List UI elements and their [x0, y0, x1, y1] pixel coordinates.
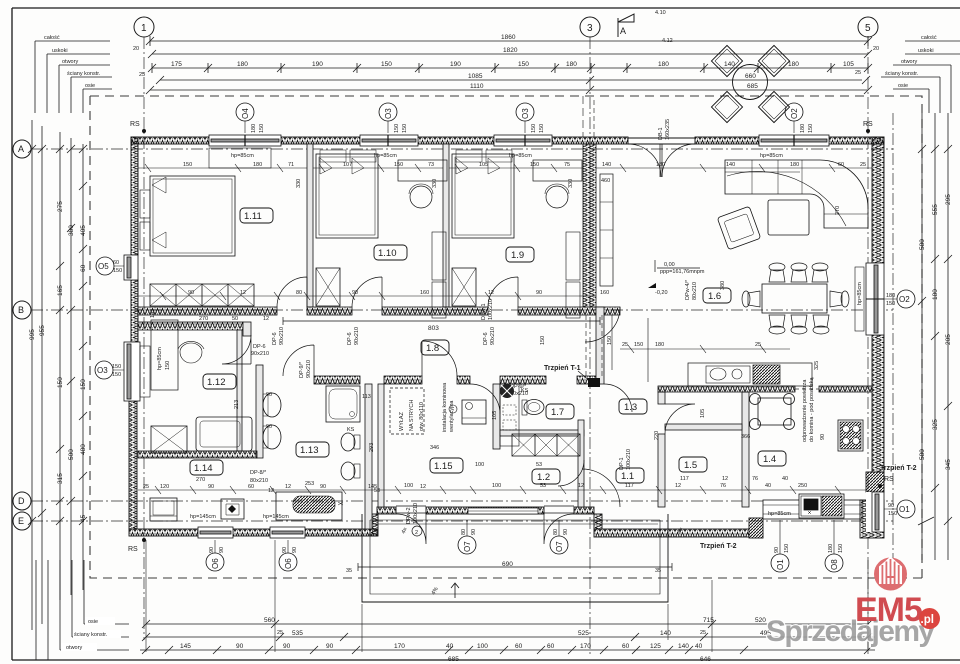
wall 1.9/living: [583, 144, 596, 307]
svg-text:25: 25: [855, 70, 861, 76]
svg-text:1.13: 1.13: [300, 445, 319, 456]
svg-text:12: 12: [488, 290, 494, 296]
svg-text:150: 150: [112, 364, 121, 370]
svg-text:O7: O7: [555, 541, 564, 552]
kitchen top wall: [658, 386, 795, 392]
corridor bottom wall / bath top: [314, 376, 360, 384]
svg-text:45: 45: [80, 514, 87, 522]
svg-text:315: 315: [57, 473, 64, 484]
svg-text:odprowadzenie powietrza: odprowadzenie powietrza: [802, 379, 808, 442]
svg-text:175: 175: [171, 61, 182, 68]
left window O3w (1.12): [124, 342, 150, 401]
grid bubble D: [13, 492, 31, 510]
svg-text:71: 71: [288, 162, 294, 168]
bottom window O6a: [198, 527, 233, 538]
svg-text:DPw-1: DPw-1: [481, 303, 487, 320]
svg-text:100x210: 100x210: [488, 299, 494, 320]
top window O4: [209, 135, 281, 146]
svg-text:ściany konstr.: ściany konstr.: [67, 71, 101, 77]
svg-text:90: 90: [282, 547, 288, 553]
803 dim under bedroom wall: [283, 317, 600, 325]
svg-text:O2: O2: [899, 295, 910, 304]
svg-text:76: 76: [752, 476, 758, 482]
svg-text:150: 150: [886, 301, 895, 307]
svg-text:346: 346: [430, 445, 439, 451]
svg-text:180: 180: [800, 124, 806, 133]
svg-text:instalacja kominowa: instalacja kominowa: [442, 382, 448, 432]
wall 1.11/1.10: [307, 144, 313, 307]
top wall hatched segments: [131, 137, 884, 144]
svg-text:O4: O4: [241, 108, 250, 119]
svg-text:330: 330: [432, 179, 438, 188]
desk 1.10: [398, 160, 447, 181]
svg-text:12: 12: [285, 484, 291, 490]
svg-text:hp=85cm: hp=85cm: [231, 153, 254, 159]
dining table: [762, 284, 827, 313]
svg-text:150: 150: [259, 124, 265, 133]
svg-text:150: 150: [540, 336, 546, 345]
svg-text:105: 105: [492, 411, 498, 420]
svg-text:O5: O5: [98, 262, 109, 271]
svg-text:380: 380: [720, 281, 726, 290]
door 1.1 porch: [582, 469, 620, 507]
svg-text:150: 150: [402, 124, 408, 133]
svg-text:270: 270: [196, 477, 205, 483]
svg-text:53: 53: [540, 483, 546, 489]
svg-text:DP-1: DP-1: [619, 457, 625, 470]
svg-text:90: 90: [536, 290, 542, 296]
extension verticals to bottom dims: [146, 540, 868, 652]
top dim line osie 1110 / 685: [146, 86, 872, 94]
svg-text:1.1: 1.1: [621, 471, 634, 482]
svg-text:90: 90: [236, 643, 244, 650]
bottom window O6b: [270, 527, 305, 538]
svg-text:140: 140: [724, 61, 735, 68]
svg-text:5: 5: [865, 23, 871, 34]
svg-text:otwory: otwory: [901, 59, 917, 65]
1.12 top wall: [138, 322, 243, 330]
svg-text:1.6: 1.6: [708, 291, 721, 302]
top window O3a: [360, 135, 418, 146]
svg-text:40: 40: [765, 483, 771, 489]
svg-text:555: 555: [932, 204, 939, 215]
svg-text:Trzpień T-2: Trzpień T-2: [700, 543, 737, 550]
bottom-left stepped labels: [36, 560, 129, 660]
svg-text:O2: O2: [790, 108, 799, 119]
svg-text:190: 190: [312, 61, 323, 68]
top dim line otwory segments: [148, 63, 872, 73]
wardrobe 1.10: [316, 268, 340, 306]
misc small dims: [150, 282, 863, 487]
svg-text:180: 180: [886, 293, 895, 299]
svg-text:105: 105: [843, 61, 854, 68]
svg-text:160x235: 160x235: [665, 119, 671, 140]
svg-text:90: 90: [292, 547, 298, 553]
svg-text:330: 330: [568, 179, 574, 188]
bedroom bottom wall segments: [138, 307, 277, 315]
svg-text:1860: 1860: [501, 34, 516, 41]
grid bubble 1: [134, 17, 154, 37]
svg-text:WYŁAZ: WYŁAZ: [399, 411, 405, 431]
chimney wall near living: [596, 307, 604, 384]
svg-text:do komina - pod posadzką: do komina - pod posadzką: [809, 377, 815, 442]
top-left stepped labels: [35, 41, 112, 113]
bath right wall: [365, 384, 372, 529]
svg-text:1110: 1110: [470, 83, 484, 90]
svg-text:12: 12: [268, 488, 274, 494]
svg-text:646: 646: [700, 656, 711, 663]
top entry door DB-1 opening: [628, 138, 695, 177]
svg-text:1.4: 1.4: [763, 454, 776, 465]
svg-text:107: 107: [343, 162, 352, 168]
top dim line calosc 1860: [146, 36, 872, 46]
svg-text:E: E: [18, 516, 24, 526]
svg-text:180: 180: [237, 61, 248, 68]
svg-text:12: 12: [420, 484, 426, 490]
svg-text:EM5: EM5: [855, 591, 922, 629]
svg-text:60: 60: [622, 643, 630, 650]
door 1.11: [277, 277, 307, 307]
svg-text:150: 150: [888, 511, 897, 517]
svg-text:35: 35: [655, 568, 661, 574]
svg-text:80: 80: [553, 529, 559, 535]
svg-text:150: 150: [808, 124, 814, 133]
svg-text:90x210: 90x210: [306, 360, 312, 378]
svg-text:1085: 1085: [468, 73, 483, 80]
svg-text:1.8: 1.8: [426, 343, 439, 354]
svg-text:3: 3: [587, 23, 593, 34]
small table with chairs: [758, 398, 791, 425]
1.15 right / 1.7 left walls: [493, 384, 500, 449]
svg-text:180: 180: [253, 162, 262, 168]
svg-text:90x210: 90x210: [251, 351, 269, 357]
svg-text:20: 20: [133, 46, 139, 52]
svg-text:90: 90: [219, 547, 225, 553]
door 1.1 entry from porch: [585, 307, 620, 342]
axis horizontal dash-dot lines A,B,D,E: [31, 149, 893, 521]
svg-text:DP-6: DP-6: [483, 332, 489, 345]
top window O2: [759, 135, 829, 146]
svg-text:140: 140: [726, 162, 735, 168]
svg-text:90: 90: [283, 643, 291, 650]
svg-text:117: 117: [680, 476, 689, 482]
svg-text:O1: O1: [899, 505, 910, 514]
svg-text:76: 76: [720, 483, 726, 489]
svg-text:90: 90: [471, 529, 477, 535]
svg-text:180: 180: [655, 342, 664, 348]
svg-text:O3: O3: [97, 366, 108, 375]
svg-text:140: 140: [678, 643, 689, 650]
svg-text:150: 150: [531, 124, 537, 133]
bottom wall under 1.5 lower level: [594, 514, 749, 537]
svg-text:.pl: .pl: [921, 614, 934, 626]
svg-text:125: 125: [650, 643, 661, 650]
svg-text:A: A: [18, 144, 24, 154]
svg-text:A: A: [620, 26, 626, 36]
svg-text:75: 75: [564, 162, 570, 168]
svg-text:0,00: 0,00: [664, 262, 675, 268]
svg-text:hp=85cm: hp=85cm: [760, 153, 783, 159]
svg-text:NA STRYCH: NA STRYCH: [409, 400, 415, 431]
svg-text:12: 12: [578, 483, 584, 489]
left vertical dim chains: [28, 120, 87, 630]
svg-text:180: 180: [788, 61, 799, 68]
svg-text:105: 105: [700, 409, 706, 418]
1.12 right wall: [237, 330, 242, 451]
svg-text:366: 366: [741, 434, 750, 440]
svg-text:40: 40: [782, 476, 788, 482]
svg-text:całość: całość: [921, 35, 937, 41]
svg-text:1820: 1820: [503, 47, 518, 54]
right window O1 low: [866, 492, 884, 532]
porch door O7b opening: [544, 506, 574, 544]
svg-text:150: 150: [838, 544, 844, 553]
svg-text:150: 150: [165, 361, 171, 370]
svg-text:100: 100: [477, 643, 488, 650]
shower: [326, 386, 360, 422]
svg-text:140: 140: [660, 630, 671, 637]
svg-text:40: 40: [446, 643, 454, 650]
svg-text:90: 90: [326, 643, 334, 650]
right window O2: [855, 263, 884, 335]
bottom-left wall hatched: [129, 529, 377, 536]
svg-text:535: 535: [292, 630, 303, 637]
svg-text:500: 500: [68, 449, 75, 460]
svg-text:80: 80: [296, 290, 302, 296]
svg-text:1.3: 1.3: [624, 402, 637, 413]
svg-text:50: 50: [232, 316, 238, 322]
svg-text:180: 180: [932, 289, 939, 300]
svg-text:RS: RS: [884, 476, 894, 483]
coffee table: [768, 200, 809, 235]
svg-text:405: 405: [80, 225, 87, 236]
svg-text:100: 100: [492, 483, 501, 489]
svg-text:180: 180: [658, 61, 669, 68]
svg-text:60: 60: [113, 260, 119, 266]
svg-text:145: 145: [180, 643, 191, 650]
interior dim rows in bedrooms y=168: [138, 164, 872, 172]
svg-text:293: 293: [369, 443, 375, 452]
dim row under bedroom doors y=296: [138, 292, 596, 300]
svg-text:80: 80: [461, 529, 467, 535]
svg-text:150: 150: [518, 61, 529, 68]
svg-text:uskoki: uskoki: [52, 48, 68, 54]
svg-text:140: 140: [602, 162, 611, 168]
svg-text:90: 90: [774, 547, 780, 553]
svg-text:275: 275: [57, 201, 64, 212]
svg-text:Trzpień T-1: Trzpień T-1: [544, 365, 581, 372]
svg-text:150: 150: [607, 336, 613, 345]
svg-text:60: 60: [248, 484, 254, 490]
svg-text:150: 150: [80, 379, 87, 390]
tv cabinet: [600, 174, 613, 286]
svg-text:150: 150: [530, 162, 539, 168]
svg-text:otwory: otwory: [66, 645, 82, 651]
dim row at y=490 right block: [455, 486, 868, 494]
svg-text:-0,20: -0,20: [655, 290, 668, 296]
sink: [706, 366, 750, 383]
door bath 1.13: [283, 345, 314, 376]
svg-text:53: 53: [374, 488, 380, 494]
svg-text:DPw-2: DPw-2: [406, 507, 412, 524]
left window O5: [124, 255, 138, 280]
stove hatched: [753, 365, 780, 384]
svg-text:90: 90: [320, 484, 326, 490]
svg-text:150: 150: [394, 124, 400, 133]
svg-text:O1: O1: [776, 559, 785, 570]
svg-text:35: 35: [346, 568, 352, 574]
svg-text:685: 685: [747, 83, 758, 90]
svg-text:345: 345: [945, 459, 952, 470]
svg-text:1.7: 1.7: [551, 407, 564, 418]
1.15 left wall: [378, 384, 384, 507]
svg-text:hp=85cm: hp=85cm: [157, 347, 163, 370]
svg-text:325: 325: [814, 361, 820, 370]
porch door O7a opening: [396, 506, 426, 544]
door 1.15: [422, 341, 457, 376]
svg-text:90x210: 90x210: [354, 327, 360, 345]
svg-text:165: 165: [57, 285, 64, 296]
svg-text:otwory: otwory: [62, 59, 78, 65]
svg-text:60: 60: [515, 643, 523, 650]
svg-text:520: 520: [755, 617, 766, 624]
svg-text:100: 100: [475, 462, 484, 468]
svg-text:Trzpień T-2: Trzpień T-2: [880, 465, 917, 472]
bathtub: [276, 492, 342, 520]
svg-text:53: 53: [536, 462, 542, 468]
svg-text:DP-6: DP-6: [272, 332, 278, 345]
svg-text:270: 270: [199, 316, 208, 322]
svg-text:660: 660: [745, 73, 756, 80]
svg-text:480: 480: [80, 444, 87, 455]
svg-text:D: D: [18, 496, 25, 506]
top dim line sciany 1085 / 660: [156, 76, 870, 84]
bottom mid wall (porch side): [370, 507, 594, 536]
svg-text:80x210: 80x210: [692, 282, 698, 300]
bottom-right corner wall: [860, 500, 884, 538]
door 1.3 to living: [604, 384, 632, 412]
svg-text:560: 560: [264, 617, 275, 624]
svg-text:O7: O7: [463, 541, 472, 552]
svg-text:12: 12: [263, 316, 269, 322]
window bubble leaders + fraction labels: [113, 121, 897, 554]
wall 1.10/1.9: [443, 144, 449, 307]
svg-text:25: 25: [143, 484, 149, 490]
corner sofa: [725, 160, 868, 228]
kitchen bottom window O1/O8 band: [763, 500, 862, 519]
wall right of 1.2: [578, 420, 584, 507]
svg-text:190: 190: [450, 61, 461, 68]
svg-text:1.10: 1.10: [378, 248, 397, 259]
svg-text:90: 90: [820, 434, 826, 440]
svg-text:170: 170: [394, 643, 405, 650]
svg-text:90: 90: [888, 503, 894, 509]
svg-text:KS: KS: [521, 388, 529, 394]
dashed roof outline rectangle: [90, 96, 922, 578]
svg-text:DP-8/*: DP-8/*: [250, 470, 267, 476]
svg-text:60: 60: [547, 643, 555, 650]
terrace table top outside: [711, 45, 789, 122]
svg-text:330: 330: [296, 179, 302, 188]
svg-text:100x210: 100x210: [626, 449, 632, 470]
svg-text:ppp=161,76mnpm: ppp=161,76mnpm: [660, 269, 705, 275]
svg-text:90: 90: [352, 290, 358, 296]
svg-text:DB-1: DB-1: [658, 127, 664, 140]
svg-text:1.9: 1.9: [511, 250, 524, 261]
svg-text:170: 170: [580, 643, 591, 650]
top dim line uskoki 1820: [148, 50, 872, 58]
door 1.9: [488, 277, 518, 307]
1.1 right wall: [658, 392, 665, 404]
svg-text:955: 955: [39, 325, 46, 336]
svg-text:150: 150: [539, 124, 545, 133]
trzpien T-2 pillar: [749, 518, 763, 538]
bed 1.11: [150, 176, 235, 256]
door 1.12: [222, 335, 251, 364]
svg-text:O6: O6: [284, 558, 293, 569]
svg-text:uskoki: uskoki: [918, 48, 934, 54]
svg-text:133: 133: [150, 309, 156, 318]
svg-text:117: 117: [625, 483, 634, 489]
grid bubble 3: [580, 17, 600, 37]
svg-text:325: 325: [932, 419, 939, 430]
svg-text:ściany konstr.: ściany konstr.: [74, 632, 108, 638]
svg-text:DP-9/*: DP-9/*: [299, 361, 305, 378]
1.12/1.14 wall: [138, 451, 257, 458]
svg-text:25: 25: [622, 342, 628, 348]
circled 2 mark near porch: [412, 526, 422, 536]
top window O3b: [494, 135, 552, 146]
door 1.2: [558, 460, 584, 486]
svg-text:150: 150: [57, 377, 64, 388]
grid bubble 5: [858, 17, 878, 37]
svg-text:150: 150: [634, 342, 643, 348]
svg-text:100: 100: [404, 483, 413, 489]
svg-text:220: 220: [654, 431, 660, 440]
svg-text:1: 1: [141, 23, 147, 34]
svg-text:1.5: 1.5: [684, 460, 697, 471]
desk 1.11: [209, 148, 271, 168]
svg-text:25: 25: [860, 162, 866, 168]
svg-text:DPw-4/*: DPw-4/*: [685, 279, 691, 300]
svg-text:12: 12: [675, 483, 681, 489]
door 1.5: [665, 404, 695, 434]
svg-text:RS: RS: [128, 546, 138, 553]
cooktop right: [838, 420, 863, 451]
right wall hatched: [866, 137, 884, 492]
svg-text:RS: RS: [130, 121, 140, 128]
svg-text:113: 113: [362, 394, 371, 400]
svg-text:270: 270: [835, 206, 841, 215]
svg-text:685: 685: [448, 656, 459, 663]
svg-text:150: 150: [784, 544, 790, 553]
svg-text:180: 180: [566, 61, 577, 68]
left wall hatched: [129, 137, 138, 529]
svg-text:20: 20: [873, 46, 879, 52]
svg-text:150: 150: [112, 372, 121, 378]
chair 1.10: [410, 186, 432, 208]
svg-text:253: 253: [305, 481, 314, 487]
svg-text:otw. 80x110: otw. 80x110: [419, 402, 425, 431]
svg-text:osie: osie: [85, 83, 95, 89]
svg-text:100x210: 100x210: [413, 503, 419, 524]
svg-text:460: 460: [601, 178, 610, 184]
1.7/1.2 wall: [500, 430, 584, 436]
svg-text:295: 295: [945, 194, 952, 205]
svg-text:25: 25: [700, 630, 706, 636]
svg-text:580: 580: [919, 449, 926, 460]
svg-text:525: 525: [578, 630, 589, 637]
